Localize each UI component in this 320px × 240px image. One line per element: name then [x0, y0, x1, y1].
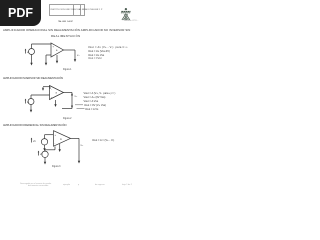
source V2 [42, 150, 48, 158]
source VI2 [28, 95, 34, 105]
svg-text:A: A [60, 137, 62, 141]
rule line b [77, 108, 85, 110]
ground below source VI1 [30, 55, 32, 66]
output node arrow vo1 [74, 50, 76, 62]
wire output U3 [71, 137, 80, 139]
svg-text:+: + [53, 45, 55, 48]
wire inverting input to ground [46, 55, 51, 63]
source V1 [41, 135, 47, 145]
wire output U1 [64, 49, 76, 51]
heading line 1 [3, 28, 130, 32]
PDF badge [0, 0, 41, 26]
supply arrow U3 [59, 144, 61, 152]
equation 3 [92, 139, 114, 142]
supply arrow U2 [54, 100, 56, 107]
svg-text:v~: v~ [75, 95, 78, 98]
circuits drawing [0, 0, 149, 198]
supply arrow U1 [56, 55, 58, 64]
wire v2 to -input [45, 147, 55, 150]
vi2 label arrow [25, 99, 27, 104]
svg-text:+: + [55, 134, 57, 137]
source VI1 [29, 44, 35, 55]
equations block 1 [88, 46, 128, 49]
ground below source VI2 [30, 105, 32, 113]
v2 label arrow [38, 151, 40, 156]
wire top [32, 43, 52, 45]
output node line vo2 [71, 93, 73, 109]
ground below V1 [43, 145, 45, 151]
wire output U2 [64, 92, 73, 94]
logo [119, 6, 135, 23]
svg-text:v~: v~ [77, 54, 80, 57]
svg-text:a: a [56, 49, 58, 52]
heading line 2 [51, 34, 81, 38]
wire v1 to +input [45, 134, 54, 136]
output node arrow vout [78, 138, 80, 163]
svg-text:v~: v~ [81, 144, 84, 147]
figura 3 caption [52, 166, 60, 168]
section 2 heading [3, 77, 63, 80]
equations block 2 [84, 92, 116, 95]
wire bottom [62, 108, 72, 110]
ground below V2 [44, 158, 46, 165]
title [58, 21, 73, 23]
op-amp U1 [51, 43, 64, 57]
svg-text:-: - [51, 88, 52, 91]
v1 label arrow [31, 138, 33, 143]
footer [20, 183, 51, 185]
section 3 heading [3, 124, 66, 127]
vi label arrow [25, 49, 27, 54]
feedback hook wire [42, 87, 50, 91]
rule line a [75, 104, 83, 106]
wire input [31, 94, 50, 96]
header table [49, 4, 85, 16]
svg-text:v2: v2 [40, 152, 43, 156]
ground arrow (inverting input) [45, 63, 47, 66]
svg-text:v1: v1 [33, 139, 36, 143]
figura 1 caption [63, 69, 71, 71]
svg-text:a: a [56, 91, 58, 94]
op-amp U2 [50, 86, 64, 100]
figura 2 caption [63, 118, 71, 120]
op-amp U3 [54, 131, 71, 147]
